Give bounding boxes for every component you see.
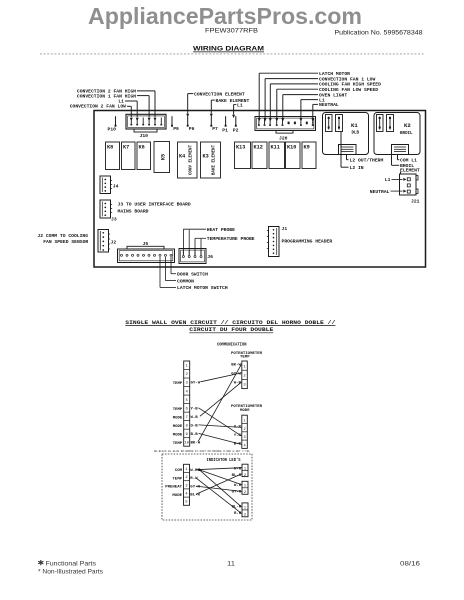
- wire convection element to P6: [186, 94, 193, 117]
- svg-text:P2: P2: [233, 128, 239, 134]
- wire BROIL ELEMENT: [392, 155, 400, 166]
- connector P12 communication (left strip): [184, 361, 190, 446]
- label LATCH MOTOR (J20): [319, 71, 350, 77]
- label MAINS BOARD: [118, 209, 149, 215]
- svg-text:J20: J20: [279, 135, 288, 141]
- svg-text:K3: K3: [203, 154, 209, 160]
- label HEAT PROBE: [207, 227, 235, 233]
- svg-text:L1: L1: [385, 177, 391, 183]
- label TEMP pin: [173, 382, 183, 386]
- label wire GY-R led: [232, 490, 242, 494]
- wire L1 to P2: [232, 105, 236, 118]
- svg-text:GY-W: GY-W: [191, 382, 201, 386]
- terminal P6: [187, 116, 195, 132]
- svg-text:CONVECTION 2 FAN LOW: CONVECTION 2 FAN LOW: [70, 103, 126, 109]
- wire NEUTRAL to J21 pin3: [391, 190, 407, 193]
- svg-text:MODE: MODE: [173, 433, 183, 437]
- svg-text:BL-R: BL-R: [190, 494, 200, 498]
- svg-text:1: 1: [244, 468, 246, 472]
- label Functional Parts: [46, 560, 97, 567]
- label wire O-B: [191, 424, 199, 428]
- wire L1 to J10: [125, 101, 139, 121]
- terminal P10: [108, 116, 117, 132]
- svg-text:TEMP: TEMP: [172, 477, 182, 481]
- label wire Y-B: [191, 407, 199, 411]
- svg-text:P6: P6: [189, 126, 195, 132]
- svg-text:INDICATOR LED'S: INDICATOR LED'S: [207, 458, 241, 463]
- main control board outline: [94, 111, 426, 268]
- label CONVECTION ELEMENT: [194, 91, 245, 97]
- svg-text:GY-R: GY-R: [190, 485, 200, 489]
- svg-text:TEMPERATURE PROBE: TEMPERATURE PROBE: [207, 236, 255, 242]
- svg-text:BK-BLACK BL-BLUE BR-BROWN GY-G: BK-BLACK BL-BLUE BR-BROWN GY-GRAY OR-ORA…: [154, 450, 250, 453]
- svg-text:K7: K7: [123, 144, 129, 150]
- relay K11: [269, 142, 285, 169]
- label J20: [279, 135, 288, 141]
- svg-text:BAKE ELEMENT: BAKE ELEMENT: [216, 98, 250, 104]
- relay K7: [122, 142, 136, 170]
- svg-text:HEAT PROBE: HEAT PROBE: [207, 227, 235, 233]
- svg-text:BROIL: BROIL: [400, 132, 413, 136]
- svg-text:J2 COMM TO COOLING: J2 COMM TO COOLING: [37, 233, 88, 239]
- svg-text:1: 1: [244, 506, 246, 510]
- publication number: [335, 29, 424, 36]
- label L1 (J21): [385, 177, 391, 183]
- label MODE: [172, 494, 182, 498]
- label J3: [111, 216, 117, 222]
- svg-text:PROGRAMMING HEADER: PROGRAMMING HEADER: [282, 238, 333, 244]
- svg-text:L2 IN: L2 IN: [350, 165, 364, 171]
- svg-text:10: 10: [185, 441, 189, 445]
- svg-text:L1: L1: [237, 102, 243, 108]
- svg-text:SINGLE WALL OVEN CIRCUIT // CI: SINGLE WALL OVEN CIRCUIT // CIRCUITO DEL…: [125, 319, 336, 326]
- wire L2 OUT/THERM: [347, 155, 349, 160]
- label wire R-R led: [234, 512, 242, 516]
- svg-text:1: 1: [244, 420, 246, 424]
- wire Y-B to mode pot 3: [199, 408, 242, 436]
- wire J5 to COMMON: [166, 257, 177, 281]
- label wire W-R led strip: [190, 469, 198, 473]
- svg-text:K9: K9: [304, 145, 310, 151]
- terminal K2-A: [377, 115, 384, 132]
- svg-text:MODE: MODE: [172, 494, 182, 498]
- svg-text:5: 5: [186, 399, 188, 403]
- indicator box outline: [162, 454, 252, 520]
- label Non-Illustrated Parts: [38, 569, 103, 576]
- relay K3 BAKE ELEMENT: [201, 142, 221, 178]
- svg-text:COM L1: COM L1: [400, 158, 417, 164]
- svg-text:ELEMENT: ELEMENT: [400, 168, 420, 174]
- svg-text:Publication No. 5995678348: Publication No. 5995678348: [335, 29, 424, 36]
- svg-text:* Non-Illustrated Parts: * Non-Illustrated Parts: [38, 569, 103, 576]
- svg-text:K13: K13: [236, 145, 245, 151]
- svg-text:P9: P9: [173, 126, 179, 132]
- label wire B-B mode pot: [234, 442, 242, 446]
- svg-text:CIRCUIT DU FOUR DOUBLE: CIRCUIT DU FOUR DOUBLE: [189, 326, 274, 333]
- terminal P1: [222, 116, 228, 133]
- label POTENTIOMETER MODE: [231, 405, 263, 413]
- label J6: [207, 254, 213, 260]
- connector J6: [179, 249, 206, 264]
- label PROGRAMMING HEADER: [282, 238, 333, 244]
- wire convection 2 fan low to J10: [127, 106, 133, 121]
- svg-text:K1: K1: [351, 122, 358, 129]
- svg-text:K2: K2: [404, 122, 411, 129]
- wire convection 2 fan high to J10: [137, 91, 157, 121]
- svg-text:Functional Parts: Functional Parts: [46, 560, 97, 567]
- svg-text:4: 4: [244, 444, 246, 448]
- svg-text:K10: K10: [287, 145, 296, 151]
- svg-text:P7: P7: [212, 126, 218, 132]
- svg-text:K8: K8: [107, 144, 113, 150]
- label wire GY-R led strip: [190, 485, 200, 489]
- svg-text:3: 3: [244, 436, 246, 440]
- svg-text:4: 4: [185, 493, 187, 497]
- label wire R-W led strip: [190, 477, 198, 481]
- wire TEMP to LED3-2: [196, 478, 242, 514]
- relay K5: [154, 142, 170, 173]
- svg-text:J4: J4: [113, 184, 119, 190]
- svg-text:NEUTRAL: NEUTRAL: [319, 102, 339, 108]
- relay K12: [252, 142, 267, 169]
- svg-text:2: 2: [244, 491, 246, 495]
- label INDICATOR LED'S: [207, 458, 241, 463]
- title WIRING DIAGRAM: [193, 45, 264, 52]
- svg-text:1: 1: [244, 365, 246, 369]
- svg-text:K12: K12: [254, 145, 263, 151]
- wire oven light to J20: [281, 95, 318, 122]
- svg-text:TEMP: TEMP: [173, 382, 183, 386]
- LED 1 connector: [242, 464, 248, 478]
- wire MODE to LED1-2: [196, 474, 242, 494]
- svg-text:COOLING FAN HIGH SPEED: COOLING FAN HIGH SPEED: [319, 82, 381, 88]
- label CONVECTION 1 FAN HIGH: [77, 93, 136, 99]
- relay K10: [286, 142, 301, 169]
- label wire BL-R led: [232, 474, 242, 478]
- svg-text:DLB: DLB: [352, 132, 360, 136]
- svg-text:MODE: MODE: [240, 409, 250, 413]
- label wire O-B mode pot: [234, 426, 242, 430]
- label LATCH MOTOR SWITCH: [177, 285, 228, 291]
- label J2 COMM TO COOLING FAN SPEED SENSOR: [37, 233, 88, 245]
- section title line 2: [189, 326, 274, 333]
- svg-text:K5: K5: [161, 154, 167, 160]
- label COOLING FAN HIGH SPEED (J20): [319, 82, 381, 88]
- terminal P9: [171, 116, 179, 132]
- svg-text:8: 8: [186, 424, 188, 428]
- relay K9: [302, 142, 316, 169]
- svg-text:Y-B: Y-B: [234, 434, 242, 438]
- svg-text:1: 1: [185, 468, 187, 472]
- svg-text:COOLING FAN LOW SPEED: COOLING FAN LOW SPEED: [319, 87, 378, 93]
- label COMMON: [177, 278, 194, 284]
- wire L1 to J21 pin1: [392, 178, 407, 181]
- svg-text:FPEW3077RFB: FPEW3077RFB: [205, 27, 258, 34]
- wire B-B to mode pot 4: [199, 433, 242, 444]
- svg-text:BAKE ELEMENT: BAKE ELEMENT: [213, 144, 217, 175]
- label wire W-B: [191, 416, 199, 420]
- label J10: [140, 133, 149, 139]
- svg-text:CONVECTION ELEMENT: CONVECTION ELEMENT: [194, 91, 245, 97]
- wire COM to LED3-1: [199, 470, 241, 507]
- wire W-B to temp pot 3: [200, 382, 241, 416]
- svg-text:K4: K4: [179, 154, 185, 160]
- label POTENTIOMETER TEMP: [231, 352, 263, 360]
- svg-text:3: 3: [186, 382, 188, 386]
- connector indicator (left strip): [184, 464, 190, 505]
- svg-text:MODE: MODE: [173, 425, 183, 429]
- label wire W-R led: [234, 484, 242, 488]
- connector J3: [100, 200, 112, 218]
- logo AppliancePartsPros.com: [88, 3, 362, 29]
- connector J5: [118, 246, 175, 262]
- svg-text:J3: J3: [111, 216, 117, 222]
- label COMMUNICATION: [217, 342, 247, 347]
- label wire BL-R led: [232, 506, 242, 510]
- connector J1: [267, 227, 279, 257]
- svg-text:Y-B: Y-B: [191, 407, 199, 411]
- svg-text:PREHEAT: PREHEAT: [165, 486, 182, 490]
- section title line 1: [125, 319, 336, 326]
- wire GY-W to temp pot 2: [201, 373, 242, 382]
- label PREHEAT: [165, 486, 182, 490]
- microtext note: [154, 450, 250, 453]
- wire K2 to J21: [400, 172, 402, 174]
- label L1 (P2): [237, 102, 243, 108]
- wire latch motor to J20: [258, 73, 318, 121]
- svg-text:7: 7: [186, 416, 188, 420]
- label MODE pin: [173, 433, 183, 437]
- footer functional parts star: [38, 560, 43, 565]
- connector potentiometer TEMP: [242, 361, 248, 389]
- svg-text:AppliancePartsPros.com: AppliancePartsPros.com: [88, 3, 362, 29]
- svg-text:MODE: MODE: [173, 416, 183, 420]
- label wire GY-W: [191, 382, 201, 386]
- LED 3 connector: [242, 503, 248, 517]
- label wire Y-B mode pot: [234, 434, 242, 438]
- svg-text:P10: P10: [108, 126, 117, 132]
- svg-text:1: 1: [186, 365, 188, 369]
- relay K13: [235, 142, 251, 169]
- label CONVECTION FAN 1 LOW (J20): [319, 76, 375, 82]
- wire J5 to LATCH MOTOR SWITCH: [160, 257, 176, 287]
- svg-text:TEMP: TEMP: [173, 408, 183, 412]
- label CONVECTION 2 FAN HIGH: [77, 88, 136, 94]
- svg-text:2: 2: [186, 373, 188, 377]
- label TEMPERATURE PROBE: [207, 236, 255, 242]
- label NEUTRAL (J20): [319, 102, 339, 108]
- label wire BL-R led strip: [190, 494, 200, 498]
- svg-text:J10: J10: [140, 133, 149, 139]
- label COM: [175, 469, 183, 473]
- svg-text:J2: J2: [111, 239, 117, 245]
- wire l1 to J20: [299, 100, 318, 122]
- wire L2 IN: [341, 132, 349, 168]
- terminal K1-B: [336, 115, 343, 132]
- relay K8: [106, 142, 120, 170]
- svg-text:J6: J6: [207, 254, 213, 260]
- label MODE pin: [173, 425, 183, 429]
- relay K4 CONV ELEMENT: [178, 142, 198, 178]
- svg-text:3: 3: [244, 384, 246, 388]
- connector J10: [126, 114, 166, 132]
- wire neutral to J20: [311, 104, 318, 121]
- wire convection 1 fan high to J10: [137, 96, 151, 121]
- label J21: [411, 198, 420, 204]
- label wire W-R led: [234, 467, 242, 471]
- date 08/16: [400, 560, 421, 567]
- svg-text:6: 6: [186, 407, 188, 411]
- label COOLING FAN LOW SPEED (J20): [319, 87, 378, 93]
- label J5: [143, 241, 149, 247]
- svg-text:O-B: O-B: [191, 424, 199, 428]
- label L1 (J10): [118, 98, 124, 104]
- label OVEN LIGHT (J20): [319, 92, 347, 98]
- label wire B-B: [191, 433, 199, 437]
- node COM junction: [198, 468, 201, 471]
- wire O-B to mode pot 2: [199, 425, 242, 428]
- svg-text:2: 2: [244, 513, 246, 517]
- svg-text:W-B: W-B: [191, 416, 199, 420]
- terminal K1-A: [326, 115, 333, 132]
- svg-text:J3 TO USER INTERFACE BOARD: J3 TO USER INTERFACE BOARD: [118, 202, 191, 208]
- label J4: [113, 184, 119, 190]
- svg-text:COMMUNICATION: COMMUNICATION: [217, 342, 247, 347]
- svg-text:2: 2: [185, 476, 187, 480]
- svg-text:5: 5: [185, 501, 187, 505]
- svg-text:MAINS BOARD: MAINS BOARD: [118, 209, 149, 215]
- svg-text:CONV ELEMENT: CONV ELEMENT: [190, 144, 194, 175]
- svg-text:TEMP: TEMP: [173, 442, 183, 446]
- svg-text:COM: COM: [175, 469, 183, 473]
- label DOOR SWITCH: [177, 272, 208, 278]
- svg-text:CONVECTION 1 FAN HIGH: CONVECTION 1 FAN HIGH: [77, 93, 136, 99]
- label L2 IN: [350, 165, 364, 171]
- svg-text:LATCH MOTOR: LATCH MOTOR: [319, 71, 350, 77]
- svg-text:1: 1: [244, 485, 246, 489]
- label L1 (J20): [319, 97, 325, 103]
- connector J4: [100, 176, 112, 194]
- relay K6: [137, 142, 151, 170]
- wire COM to LED1-1: [196, 468, 242, 470]
- label NEUTRAL (J21): [370, 189, 390, 195]
- svg-text:B-B: B-B: [191, 433, 199, 437]
- svg-text:NEUTRAL: NEUTRAL: [370, 189, 390, 195]
- label TEMP: [172, 477, 182, 481]
- label J2: [111, 239, 117, 245]
- terminal P2: [233, 116, 239, 133]
- relay K1 DLB: [323, 113, 369, 155]
- label L2 OUT/THERM: [350, 158, 384, 164]
- label TEMP pin: [173, 442, 183, 446]
- svg-text:K11: K11: [271, 145, 280, 151]
- label wire GY-W temp pot: [231, 373, 241, 377]
- svg-text:9: 9: [186, 433, 188, 437]
- svg-text:J1: J1: [282, 226, 288, 232]
- wire cooling fan low speed to J20: [275, 89, 318, 121]
- svg-text:COMMON: COMMON: [177, 278, 194, 284]
- svg-text:DOOR SWITCH: DOOR SWITCH: [177, 272, 208, 278]
- connector J21: [400, 174, 419, 195]
- label wire BK-W temp pot: [231, 364, 241, 368]
- wire PREHEAT to LED2-2: [196, 486, 242, 491]
- wire BK-W to temp pot 1: [198, 364, 241, 441]
- label MODE pin: [173, 416, 183, 420]
- svg-text:K6: K6: [139, 144, 145, 150]
- connector K1 output: [339, 145, 357, 155]
- wire TEMPERATURE PROBE to J6: [195, 238, 206, 250]
- terminal K2-B: [387, 115, 394, 132]
- wire COM to LED2-1: [199, 470, 241, 485]
- label wire W-B temp pot: [234, 382, 242, 386]
- svg-text:2: 2: [244, 428, 246, 432]
- label BROIL ELEMENT: [400, 163, 420, 174]
- connector potentiometer MODE: [242, 415, 248, 448]
- svg-text:WIRING DIAGRAM: WIRING DIAGRAM: [193, 45, 264, 52]
- header rule: [40, 53, 424, 55]
- label BAKE ELEMENT: [216, 98, 250, 104]
- svg-text:2: 2: [244, 474, 246, 478]
- model number FPEW3077RFB: [205, 27, 258, 34]
- wire COM L1: [398, 155, 400, 160]
- svg-text:3: 3: [185, 484, 187, 488]
- wire bake element to P7: [210, 100, 215, 117]
- svg-text:LATCH MOTOR SWITCH: LATCH MOTOR SWITCH: [177, 285, 228, 291]
- svg-text:11: 11: [227, 560, 235, 567]
- label CONVECTION 2 FAN LOW: [70, 103, 126, 109]
- label wire BK-W: [191, 442, 201, 446]
- svg-text:4: 4: [186, 390, 188, 394]
- svg-text:2: 2: [244, 375, 246, 379]
- label COM L1: [400, 158, 417, 164]
- wire convection fan 1 low to J20: [264, 79, 318, 122]
- label J1: [282, 226, 288, 232]
- svg-text:BK-W: BK-W: [191, 442, 201, 446]
- terminal P7: [210, 116, 218, 132]
- svg-text:P1: P1: [222, 128, 228, 134]
- connector J20: [255, 117, 316, 134]
- label J3 TO USER INTERFACE BOARD: [118, 202, 191, 208]
- LED 2 connector: [242, 481, 248, 495]
- wire J5 to DOOR SWITCH: [171, 257, 176, 274]
- wire cooling fan high speed to J20: [269, 84, 318, 122]
- wire HEAT PROBE to J6: [183, 229, 206, 250]
- svg-text:08/16: 08/16: [400, 560, 421, 567]
- svg-text:FAN SPEED SENSOR: FAN SPEED SENSOR: [43, 239, 88, 245]
- svg-text:J21: J21: [411, 198, 420, 204]
- connector K2 output: [392, 145, 409, 155]
- label TEMP pin: [173, 408, 183, 412]
- svg-text:TEMP: TEMP: [240, 356, 250, 360]
- svg-text:L2 OUT/THERM: L2 OUT/THERM: [350, 158, 384, 164]
- relay K2 BROIL: [374, 113, 420, 155]
- connector J2: [98, 230, 110, 253]
- page number 11: [227, 560, 235, 567]
- svg-text:CONVECTION FAN 1 LOW: CONVECTION FAN 1 LOW: [319, 76, 375, 82]
